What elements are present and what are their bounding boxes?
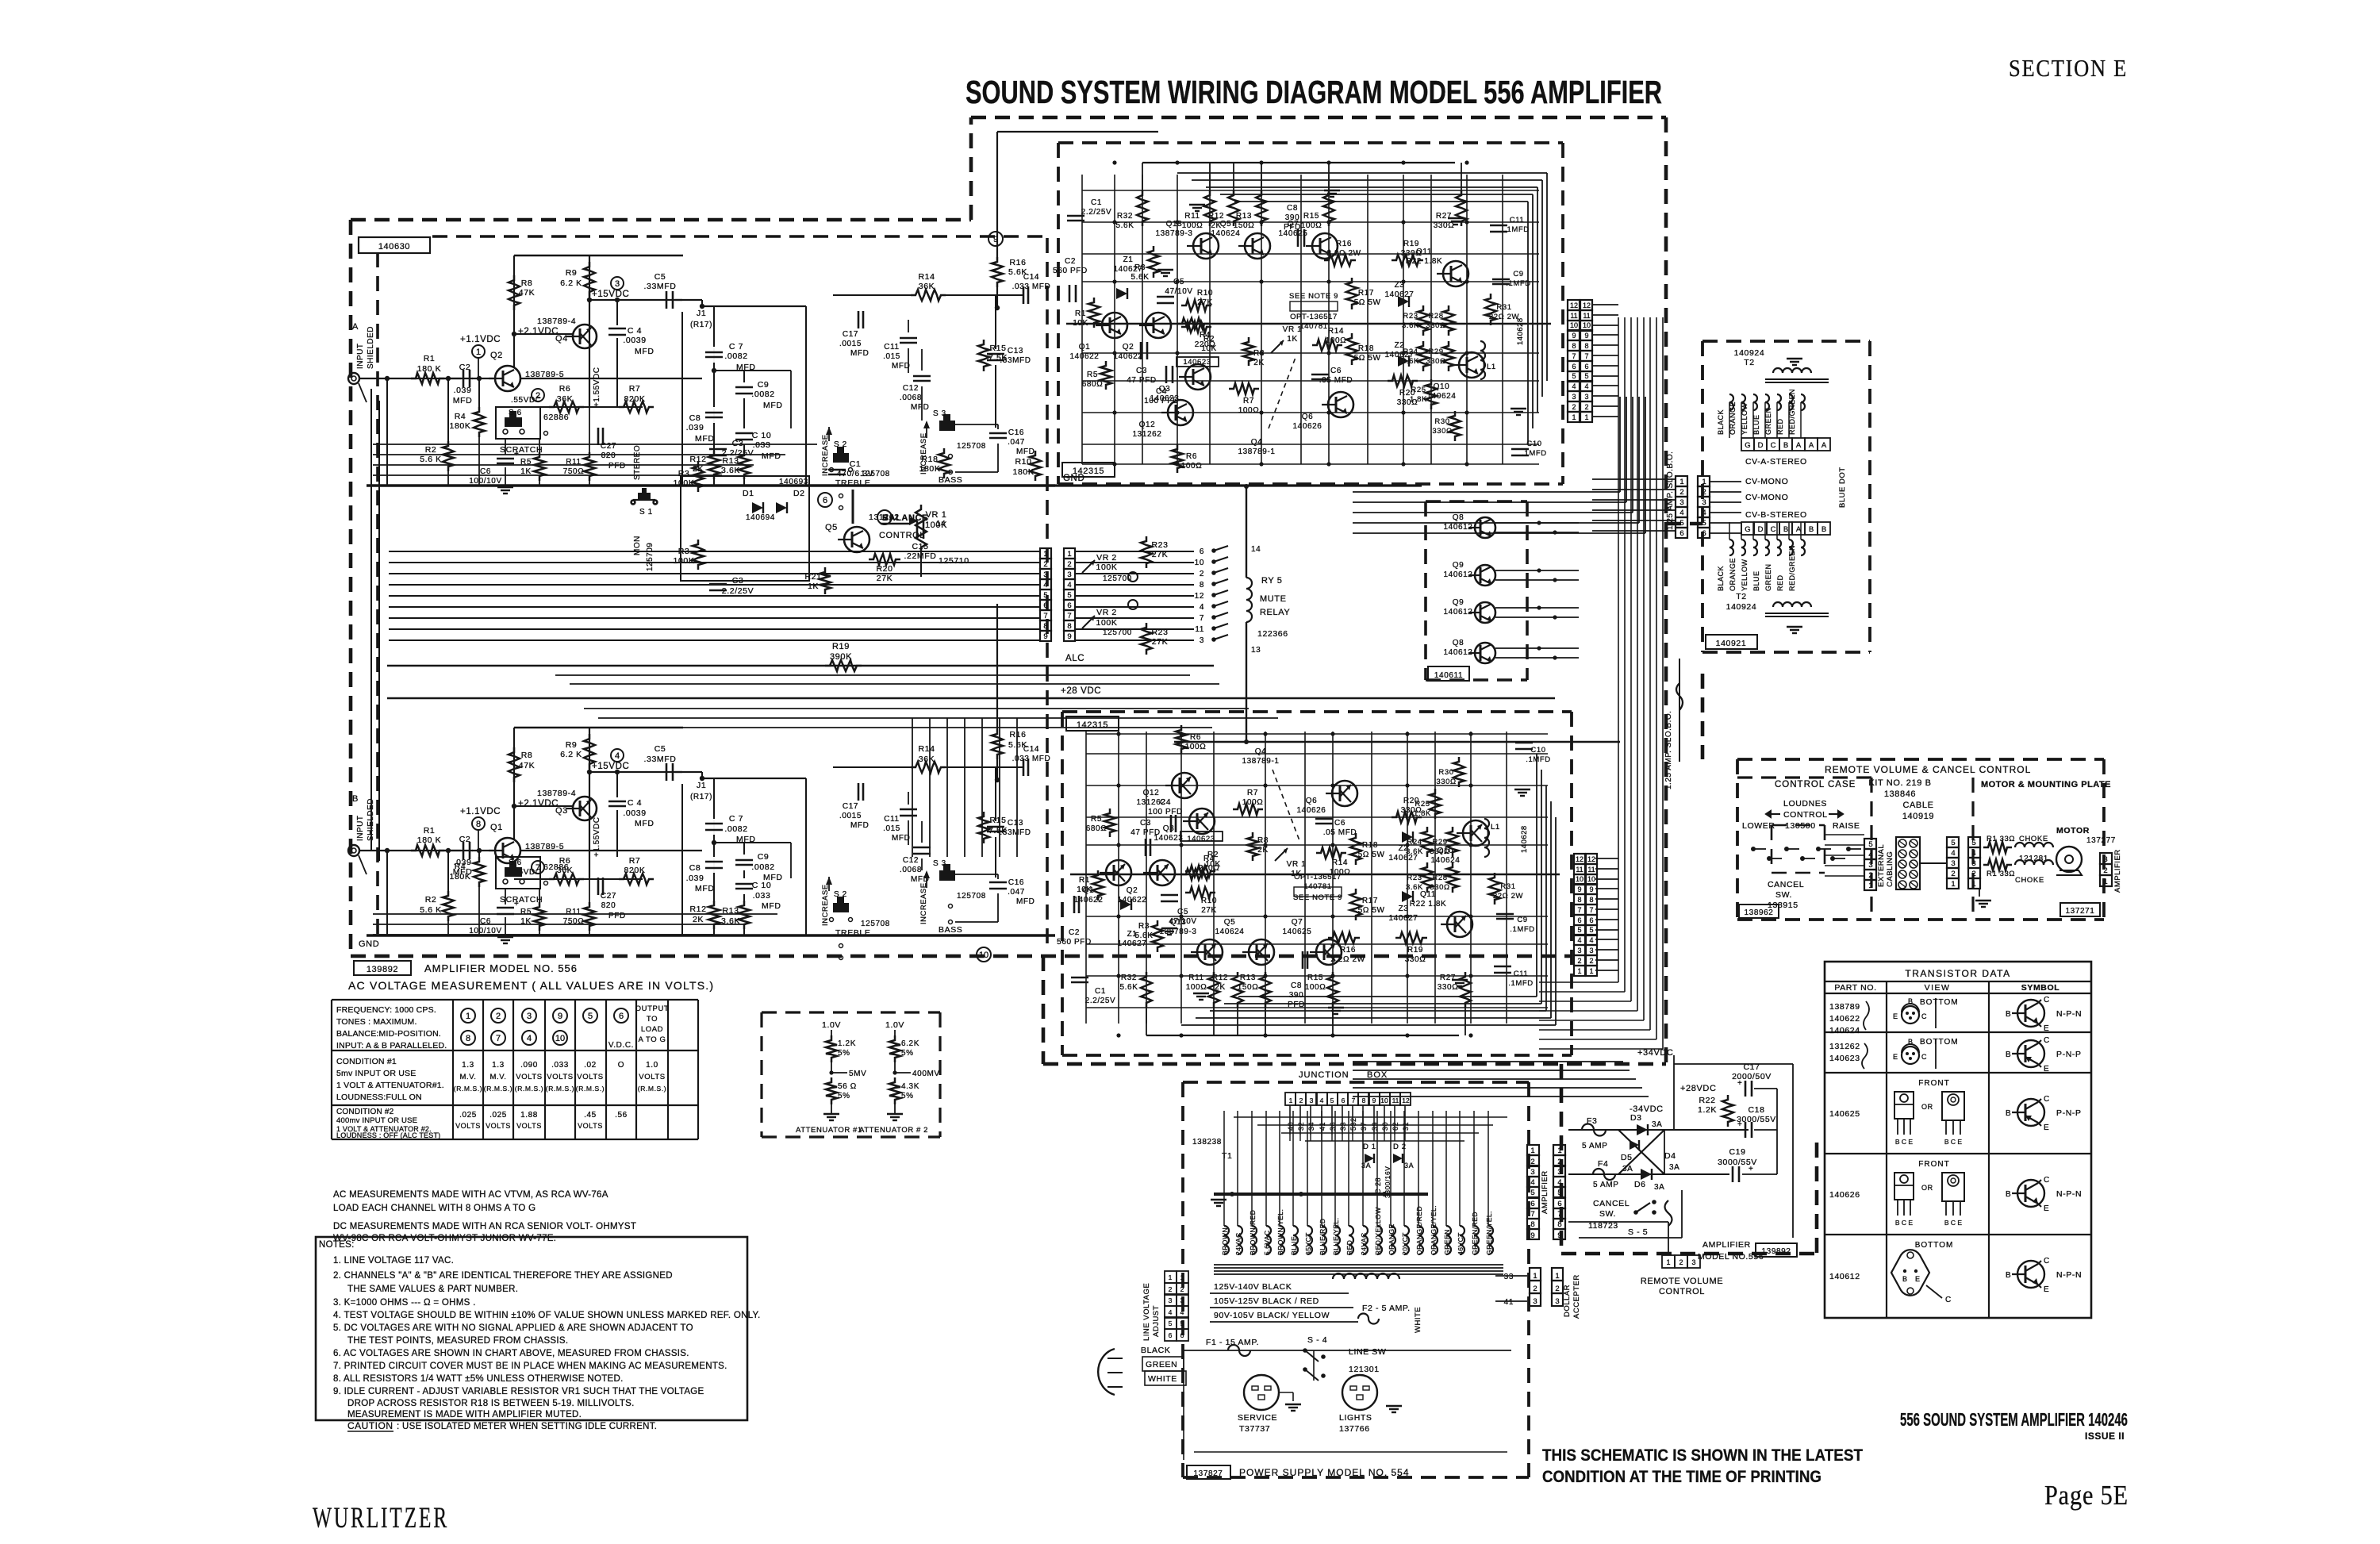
svg-text:140693: 140693: [779, 478, 808, 486]
svg-text:36K: 36K: [919, 755, 935, 764]
svg-text:12: 12: [1402, 1097, 1410, 1104]
svg-text:KIT NO. 219 B: KIT NO. 219 B: [1868, 778, 1931, 788]
svg-text:C11: C11: [884, 343, 899, 351]
svg-text:B: B: [2006, 1109, 2011, 1118]
svg-text:C15: C15: [912, 542, 928, 551]
svg-text:9: 9: [1067, 632, 1071, 641]
svg-text:3: 3: [527, 1012, 532, 1021]
svg-text:SCRATCH: SCRATCH: [500, 895, 543, 905]
svg-text:138789-4: 138789-4: [537, 317, 576, 326]
svg-text:(R.M.S.): (R.M.S.): [638, 1085, 666, 1093]
svg-text:27K: 27K: [1197, 298, 1213, 307]
svg-text:AMPLIFIER: AMPLIFIER: [2113, 849, 2122, 893]
svg-text:4: 4: [1868, 851, 1872, 859]
svg-text:7: 7: [1577, 906, 1581, 914]
svg-text:FRONT: FRONT: [1918, 1160, 1949, 1169]
svg-text:139892: 139892: [1762, 1247, 1791, 1256]
svg-text:.0082: .0082: [724, 824, 747, 834]
svg-text:E: E: [2044, 1065, 2049, 1074]
svg-text:30: 30: [1381, 1122, 1389, 1131]
svg-text:B C E: B C E: [1944, 1138, 1963, 1146]
svg-text:S 1: S 1: [639, 508, 653, 517]
svg-text:.22MFD: .22MFD: [904, 551, 937, 561]
svg-text:BLUE: BLUE: [1752, 570, 1760, 591]
svg-text:ADJUST: ADJUST: [1152, 1305, 1161, 1337]
svg-text:138789-1: 138789-1: [1242, 757, 1279, 766]
svg-text:1: 1: [1289, 1097, 1293, 1104]
svg-text:C: C: [2044, 1257, 2050, 1266]
svg-text:140625: 140625: [1283, 928, 1312, 936]
svg-text:3: 3: [1555, 1297, 1559, 1306]
svg-text:.1MFD: .1MFD: [1526, 755, 1551, 764]
svg-text:8: 8: [1572, 342, 1576, 350]
svg-text:R14: R14: [918, 272, 935, 282]
svg-text:C16: C16: [1008, 878, 1024, 887]
svg-text:MFD: MFD: [635, 819, 654, 828]
svg-text:: USE ISOLATED METER WHEN: : USE ISOLATED METER WHEN SETTING IDLE C…: [397, 1422, 657, 1431]
svg-text:100K: 100K: [1096, 563, 1118, 572]
svg-text:330Ω: 330Ω: [1430, 883, 1449, 892]
svg-text:C11: C11: [1510, 216, 1525, 225]
svg-text:R19: R19: [1407, 946, 1423, 954]
svg-text:100Ω: 100Ω: [1186, 983, 1207, 992]
svg-text:P-N-P: P-N-P: [2056, 1050, 2082, 1059]
svg-text:CAUTION: CAUTION: [347, 1420, 393, 1431]
svg-text:4: 4: [1530, 1178, 1534, 1187]
svg-text:R1: R1: [424, 354, 436, 363]
svg-text:330Ω: 330Ω: [1438, 983, 1459, 992]
svg-text:R23: R23: [1151, 628, 1168, 637]
svg-text:SHIELDED: SHIELDED: [367, 326, 375, 369]
svg-text:BOX: BOX: [1367, 1070, 1388, 1080]
svg-text:137766: 137766: [1339, 1424, 1370, 1434]
svg-text:2.2/25V: 2.2/25V: [1081, 208, 1112, 217]
svg-text:BALANCE:MID-POSITION.: BALANCE:MID-POSITION.: [336, 1029, 441, 1039]
svg-text:.5Ω 5W: .5Ω 5W: [1351, 354, 1380, 363]
svg-text:1: 1: [1067, 550, 1071, 559]
svg-text:3: 3: [2103, 855, 2107, 864]
svg-text:2. CHANNELS "A" & "B" ARE IDEN: 2. CHANNELS "A" & "B" ARE IDENTICAL THER…: [333, 1271, 673, 1281]
svg-text:2.2/25V: 2.2/25V: [722, 586, 754, 596]
svg-text:WV-98C OR RCA VOLT-OHMYST: WV-98C OR RCA VOLT-OHMYST JUNIOR WV-77E.: [333, 1234, 556, 1243]
svg-text:C17: C17: [843, 330, 858, 339]
svg-text:2: 2: [1679, 1258, 1683, 1266]
svg-text:S 2: S 2: [834, 440, 847, 449]
svg-text:3: 3: [1533, 1297, 1537, 1306]
svg-text:C3: C3: [1140, 819, 1151, 828]
svg-text:INPUT: INPUT: [356, 344, 365, 370]
svg-text:5.6 K: 5.6 K: [420, 455, 442, 464]
svg-text:R15: R15: [989, 344, 1006, 353]
svg-text:140627: 140627: [1389, 914, 1418, 923]
svg-text:8: 8: [1200, 581, 1204, 590]
svg-text:T2: T2: [1744, 358, 1754, 367]
svg-text:GND: GND: [1063, 474, 1084, 483]
svg-text:C 10: C 10: [752, 881, 772, 890]
svg-text:5: 5: [1067, 591, 1071, 600]
svg-text:.5Ω 5W: .5Ω 5W: [1351, 298, 1380, 307]
svg-text:.033: .033: [753, 440, 771, 450]
svg-text:+: +: [1749, 1165, 1753, 1173]
svg-text:.1MFD: .1MFD: [1506, 279, 1531, 288]
svg-text:6: 6: [1200, 547, 1204, 556]
svg-text:1.25 AMP. SLO.B.O.: 1.25 AMP. SLO.B.O.: [1666, 451, 1675, 530]
svg-text:10: 10: [979, 951, 988, 960]
svg-text:7: 7: [1352, 1097, 1356, 1104]
svg-text:137271: 137271: [2066, 907, 2095, 916]
svg-text:5.6K: 5.6K: [1008, 740, 1027, 750]
svg-text:C27: C27: [601, 442, 616, 451]
svg-text:M.V.: M.V.: [459, 1073, 476, 1081]
svg-text:R7: R7: [629, 384, 641, 394]
svg-text:4: 4: [1200, 603, 1204, 612]
svg-text:2: 2: [1533, 1285, 1537, 1293]
svg-text:.025: .025: [489, 1111, 507, 1120]
svg-text:VR 2: VR 2: [1096, 608, 1117, 617]
svg-text:R15: R15: [1307, 974, 1323, 982]
svg-text:DOLLAR: DOLLAR: [1563, 1285, 1572, 1317]
svg-text:C: C: [2044, 1176, 2050, 1185]
svg-text:6: 6: [1180, 1331, 1184, 1339]
svg-text:C3: C3: [732, 439, 744, 448]
svg-text:140628: 140628: [1520, 825, 1529, 853]
svg-text:OUTPUT: OUTPUT: [635, 1004, 670, 1013]
svg-text:100 PFD: 100 PFD: [1144, 397, 1179, 405]
svg-text:4: 4: [527, 1034, 532, 1043]
svg-text:100Ω: 100Ω: [1181, 462, 1203, 470]
svg-text:5.6K: 5.6K: [1131, 273, 1150, 282]
svg-text:3: 3: [1868, 861, 1872, 870]
svg-text:5. DC VOLTAGES ARE WITH NO SIG: 5. DC VOLTAGES ARE WITH NO SIGNAL APPLIE…: [333, 1323, 693, 1333]
svg-text:S 6: S 6: [509, 409, 522, 417]
svg-text:C12: C12: [903, 384, 919, 393]
svg-text:R17: R17: [1362, 897, 1378, 905]
svg-text:11: 11: [1583, 312, 1590, 320]
svg-text:C 7: C 7: [729, 814, 743, 824]
svg-text:1.0V: 1.0V: [885, 1020, 904, 1030]
svg-text:140630: 140630: [378, 242, 410, 252]
svg-text:PFD: PFD: [608, 462, 626, 470]
svg-text:R25: R25: [1415, 800, 1430, 808]
svg-text:140781: 140781: [1303, 882, 1331, 891]
svg-text:12: 12: [1587, 855, 1595, 863]
svg-text:OPT-136517: OPT-136517: [1290, 313, 1338, 321]
svg-text:2K: 2K: [1257, 846, 1268, 855]
svg-text:3.6K: 3.6K: [1406, 883, 1423, 892]
svg-text:27K: 27K: [1152, 637, 1168, 647]
svg-text:E: E: [1893, 1053, 1898, 1061]
svg-text:YELLOW: YELLOW: [1741, 559, 1749, 591]
svg-text:GREEN: GREEN: [1146, 1360, 1177, 1369]
svg-text:D5: D5: [1621, 1153, 1633, 1162]
svg-text:6.2 K: 6.2 K: [560, 750, 582, 759]
svg-text:CV-MONO: CV-MONO: [1745, 477, 1788, 486]
svg-text:36K: 36K: [919, 282, 935, 291]
svg-text:PFD: PFD: [608, 912, 626, 920]
svg-text:BLACK: BLACK: [1717, 566, 1725, 591]
svg-text:47 PFD: 47 PFD: [1130, 828, 1161, 837]
svg-text:3A: 3A: [1652, 1120, 1662, 1129]
svg-text:5: 5: [882, 513, 887, 523]
svg-text:MFD: MFD: [635, 347, 654, 356]
svg-text:C: C: [2044, 1036, 2050, 1045]
svg-text:R24: R24: [1403, 348, 1418, 356]
svg-text:10: 10: [1195, 559, 1204, 567]
svg-text:6: 6: [1589, 916, 1593, 924]
svg-text:3: 3: [1310, 1097, 1314, 1104]
svg-text:R2: R2: [1207, 851, 1219, 859]
svg-text:140612: 140612: [1444, 523, 1473, 532]
svg-text:4. TEST VOLTAGE SHOULD BE WITH: 4. TEST VOLTAGE SHOULD BE WITHIN ±10% OF…: [333, 1311, 761, 1320]
svg-text:7: 7: [1043, 612, 1047, 620]
svg-text:B: B: [1783, 525, 1788, 534]
svg-text:4: 4: [1589, 936, 1593, 944]
svg-text:8: 8: [476, 820, 481, 829]
svg-text:R8: R8: [521, 751, 533, 760]
svg-text:B: B: [1902, 1275, 1908, 1283]
svg-text:MFD: MFD: [453, 396, 473, 405]
svg-text:.039: .039: [454, 386, 472, 395]
svg-text:6: 6: [619, 1012, 624, 1021]
svg-text:R13: R13: [1240, 974, 1256, 982]
svg-text:4: 4: [1169, 1308, 1173, 1316]
svg-text:100Ω: 100Ω: [1242, 798, 1264, 807]
svg-text:140626: 140626: [1293, 422, 1322, 431]
svg-text:B C E: B C E: [1895, 1138, 1914, 1146]
svg-text:1: 1: [1180, 1273, 1184, 1281]
svg-text:MFD: MFD: [911, 403, 929, 412]
svg-text:MFD: MFD: [1016, 897, 1035, 906]
svg-text:.05 MFD: .05 MFD: [1323, 828, 1357, 837]
svg-text:LIGHTS: LIGHTS: [1339, 1413, 1372, 1423]
svg-text:CONTROL: CONTROL: [1783, 810, 1828, 820]
svg-text:R2: R2: [1203, 335, 1215, 344]
svg-text:VOLTS: VOLTS: [516, 1073, 542, 1081]
svg-text:139892: 139892: [367, 965, 398, 974]
svg-text:T1: T1: [1222, 1151, 1232, 1161]
svg-text:9: 9: [558, 1012, 562, 1021]
svg-text:BLACK: BLACK: [1141, 1346, 1170, 1355]
svg-text:140628: 140628: [1516, 317, 1525, 345]
svg-text:33: 33: [1504, 1273, 1514, 1281]
svg-text:CV-A-STEREO: CV-A-STEREO: [1745, 457, 1807, 467]
svg-text:140626: 140626: [1829, 1190, 1860, 1200]
svg-text:180 K: 180 K: [417, 364, 441, 374]
svg-text:1: 1: [1530, 1146, 1534, 1155]
svg-text:1: 1: [1679, 478, 1683, 486]
svg-text:+1.1VDC: +1.1VDC: [460, 807, 501, 816]
svg-text:R23: R23: [1407, 874, 1422, 882]
svg-text:VOLTS: VOLTS: [455, 1122, 481, 1130]
svg-text:4: 4: [1951, 849, 1955, 858]
svg-text:CONDITION AT THE TIME OF PRINT: CONDITION AT THE TIME OF PRINTING: [1542, 1468, 1821, 1486]
svg-text:138789-4: 138789-4: [537, 789, 576, 798]
svg-text:R30: R30: [1438, 768, 1453, 777]
svg-text:Q2: Q2: [1127, 886, 1138, 895]
svg-text:140612: 140612: [1444, 648, 1473, 657]
svg-text:+2.1VDC: +2.1VDC: [518, 799, 559, 808]
svg-text:27K: 27K: [877, 574, 892, 583]
svg-text:WHITE: WHITE: [1148, 1374, 1177, 1384]
svg-text:C8: C8: [1291, 981, 1302, 990]
svg-text:.015: .015: [883, 352, 900, 361]
svg-text:VR 2: VR 2: [1096, 553, 1117, 563]
svg-text:+: +: [1737, 1120, 1742, 1129]
svg-text:CV-B-STEREO: CV-B-STEREO: [1745, 510, 1807, 520]
svg-text:Q1: Q1: [490, 823, 503, 832]
svg-text:2: 2: [1557, 1158, 1561, 1166]
svg-text:10K: 10K: [1073, 319, 1088, 328]
svg-text:.0039: .0039: [623, 808, 646, 818]
svg-text:MOTOR: MOTOR: [2056, 826, 2090, 835]
svg-text:R6: R6: [1186, 452, 1197, 461]
svg-text:5.6K: 5.6K: [1135, 931, 1154, 940]
svg-text:2: 2: [1067, 560, 1071, 569]
svg-text:5: 5: [1951, 839, 1955, 847]
svg-text:140694: 140694: [746, 513, 775, 522]
svg-text:.45: .45: [584, 1111, 597, 1120]
svg-text:8. ALL RESISTORS 1/4 WATT ±5%: 8. ALL RESISTORS 1/4 WATT ±5% UNLESS OTH…: [333, 1374, 624, 1384]
svg-text:C6: C6: [1330, 367, 1342, 375]
svg-text:Q1: Q1: [1083, 886, 1095, 895]
svg-text:9: 9: [1557, 1231, 1561, 1240]
svg-text:S 3: S 3: [933, 409, 946, 418]
svg-text:62886: 62886: [543, 862, 569, 872]
svg-text:Q5: Q5: [1224, 918, 1236, 927]
svg-text:BASS: BASS: [939, 475, 962, 485]
svg-text:SERVICE: SERVICE: [1238, 1413, 1277, 1423]
svg-text:11: 11: [1570, 312, 1577, 320]
svg-text:CONTROL CASE: CONTROL CASE: [1775, 780, 1856, 789]
svg-text:10: 10: [1583, 321, 1591, 329]
svg-text:140781: 140781: [1299, 322, 1327, 331]
svg-text:VR 1: VR 1: [1287, 860, 1307, 869]
svg-text:VIEW: VIEW: [1925, 983, 1951, 993]
svg-text:140924: 140924: [1726, 602, 1757, 612]
svg-text:8: 8: [1067, 622, 1071, 631]
svg-text:C 10: C 10: [752, 431, 772, 440]
svg-text:4: 4: [1577, 936, 1581, 944]
svg-text:S 2: S 2: [834, 890, 847, 899]
svg-text:3300/16V: 3300/16V: [1384, 1166, 1392, 1198]
svg-text:556 SOUND SYSTEM AMPLIFIER 14: 556 SOUND SYSTEM AMPLIFIER 140246: [1900, 1409, 2128, 1430]
svg-text:1: 1: [2103, 878, 2107, 886]
svg-text:SECTION E: SECTION E: [2009, 54, 2128, 82]
svg-text:180K: 180K: [919, 464, 941, 474]
svg-text:R16: R16: [1340, 946, 1356, 954]
svg-text:C1: C1: [1095, 987, 1106, 996]
svg-text:+15VDC: +15VDC: [592, 762, 629, 771]
svg-text:C 4: C 4: [628, 798, 642, 808]
svg-text:J1: J1: [697, 781, 706, 790]
svg-text:2: 2: [496, 1012, 501, 1021]
svg-text:A: A: [1809, 441, 1814, 450]
svg-text:Q5: Q5: [1220, 220, 1232, 229]
svg-text:C4: C4: [1156, 387, 1167, 396]
svg-text:D 1: D 1: [1363, 1143, 1376, 1151]
svg-text:S 3: S 3: [933, 859, 946, 868]
svg-text:Page 5E: Page 5E: [2044, 1480, 2129, 1511]
svg-text:.0015: .0015: [839, 812, 862, 820]
svg-text:INCREASE: INCREASE: [919, 882, 928, 924]
svg-text:1: 1: [1951, 880, 1955, 889]
svg-text:CONDITION #1: CONDITION #1: [336, 1057, 397, 1066]
svg-text:LINE VOLTAGE: LINE VOLTAGE: [1142, 1283, 1151, 1341]
svg-text:CABLING: CABLING: [1886, 851, 1894, 887]
svg-text:B: B: [2006, 1190, 2011, 1199]
svg-text:6: 6: [1067, 601, 1071, 610]
svg-text:5: 5: [1577, 926, 1581, 934]
svg-text:37: 37: [1360, 1122, 1368, 1131]
svg-text:D3: D3: [1630, 1113, 1642, 1123]
svg-text:+: +: [1737, 1079, 1742, 1088]
svg-text:MON: MON: [633, 536, 642, 555]
svg-text:4: 4: [1584, 382, 1588, 390]
svg-text:3. K=1000 OHMS --- Ω = OHMS .: 3. K=1000 OHMS --- Ω = OHMS .: [333, 1298, 476, 1308]
svg-text:RED/GREEN: RED/GREEN: [1788, 545, 1796, 591]
svg-text:9. IDLE CURRENT - ADJUST VARI: 9. IDLE CURRENT - ADJUST VARIABLE RESIST…: [333, 1387, 704, 1396]
svg-text:Q4: Q4: [1255, 747, 1267, 756]
svg-text:32: 32: [1297, 1122, 1305, 1131]
svg-text:.039: .039: [686, 423, 704, 432]
svg-text:OPT-136517: OPT-136517: [1294, 873, 1342, 881]
svg-text:POWER SUPPLY MODEL NO. 554: POWER SUPPLY MODEL NO. 554: [1239, 1467, 1410, 1478]
svg-text:11: 11: [1392, 1097, 1399, 1104]
svg-text:AC VOLTAGE MEASUREMENT ( A: AC VOLTAGE MEASUREMENT ( ALL VALUES ARE …: [348, 979, 714, 992]
svg-text:C11: C11: [1514, 970, 1529, 978]
svg-text:5: 5: [1868, 840, 1872, 849]
svg-text:140612: 140612: [1444, 570, 1473, 579]
svg-text:WURLITZER: WURLITZER: [313, 1502, 449, 1534]
svg-text:PART NO.: PART NO.: [1834, 983, 1876, 993]
svg-text:VR 1: VR 1: [926, 510, 947, 520]
svg-text:CANCEL: CANCEL: [1768, 880, 1804, 889]
svg-text:C: C: [2044, 1095, 2050, 1104]
svg-text:5MV: 5MV: [849, 1070, 866, 1078]
svg-text:2: 2: [1169, 1285, 1173, 1293]
svg-text:140624: 140624: [1829, 1026, 1860, 1035]
svg-text:1 VOLT & ATTENUATOR#1.: 1 VOLT & ATTENUATOR#1.: [336, 1081, 444, 1090]
svg-text:CANCEL: CANCEL: [1593, 1199, 1630, 1208]
svg-text:14: 14: [936, 520, 946, 528]
svg-text:C18: C18: [1748, 1105, 1764, 1115]
svg-text:400mv INPUT OR USE: 400mv INPUT OR USE: [336, 1116, 417, 1125]
svg-text:R14: R14: [1332, 858, 1348, 867]
svg-text:5: 5: [1169, 1319, 1173, 1327]
svg-text:Q7: Q7: [1288, 220, 1299, 229]
svg-text:33: 33: [1339, 1122, 1347, 1131]
svg-text:125708: 125708: [861, 920, 890, 928]
svg-text:125700: 125700: [1103, 628, 1132, 637]
svg-text:C8: C8: [1287, 204, 1298, 213]
svg-text:R2: R2: [425, 445, 437, 455]
svg-text:820K: 820K: [624, 394, 646, 404]
svg-text:2: 2: [1951, 870, 1955, 878]
svg-text:R3: R3: [678, 469, 690, 478]
svg-text:C: C: [2044, 996, 2050, 1004]
svg-text:R25: R25: [1411, 386, 1426, 394]
svg-text:1. LINE VOLTAGE 117 VAC.: 1. LINE VOLTAGE 117 VAC.: [333, 1256, 454, 1266]
svg-text:R8: R8: [521, 278, 533, 288]
svg-text:O: O: [618, 1061, 624, 1070]
svg-text:36K: 36K: [557, 394, 573, 404]
svg-text:.1MFD: .1MFD: [1522, 449, 1547, 458]
svg-text:.0082: .0082: [724, 351, 747, 361]
svg-text:R10: R10: [1201, 897, 1217, 905]
svg-text:R7: R7: [629, 856, 641, 866]
svg-text:R3: R3: [1134, 263, 1146, 272]
svg-text:5: 5: [1679, 519, 1683, 528]
